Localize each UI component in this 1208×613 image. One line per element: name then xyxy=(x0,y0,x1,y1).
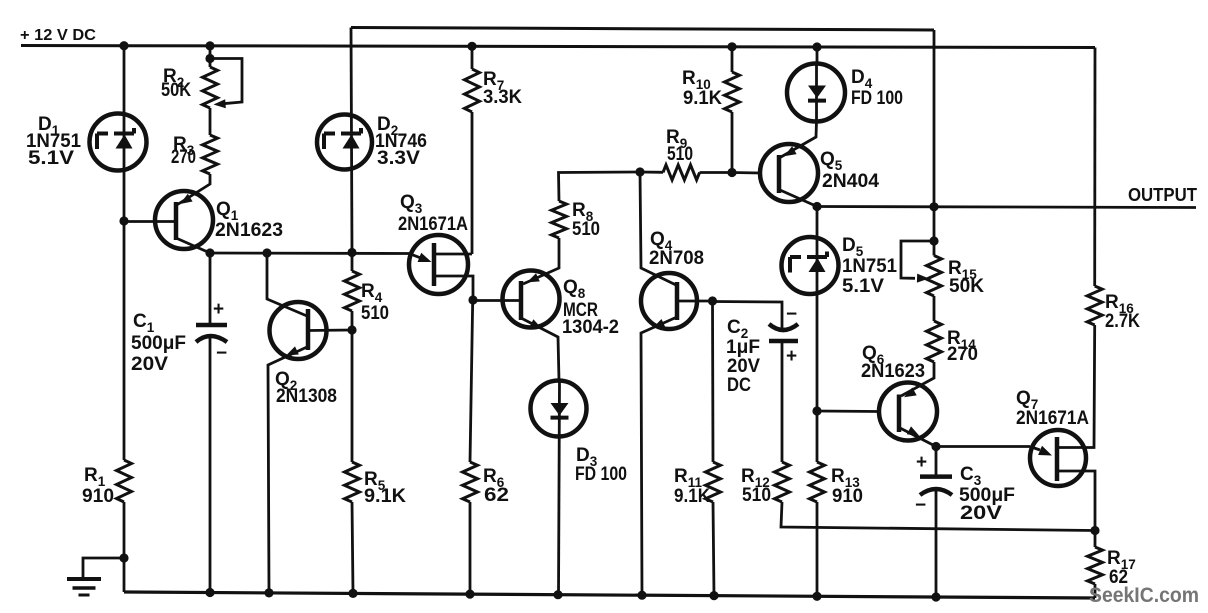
wire R8 to Q8 anode xyxy=(523,238,559,284)
svg-text:62: 62 xyxy=(484,485,509,506)
svg-text:2N1623: 2N1623 xyxy=(861,361,925,382)
svg-text:5.1V: 5.1V xyxy=(842,276,884,297)
label Q5 xyxy=(820,149,879,192)
resistor R14 270 xyxy=(927,321,942,362)
label C3 xyxy=(959,464,1015,524)
resistor R4 510 xyxy=(345,271,360,311)
label R17 xyxy=(1107,548,1136,588)
wire R7 to Q3 B2 xyxy=(471,112,474,254)
wire C1 stem xyxy=(209,253,212,325)
wire D3 through and down xyxy=(559,381,560,595)
wire D5 stem xyxy=(816,207,819,412)
wire top rail drop x934 xyxy=(933,30,936,241)
wire R15-R14 link xyxy=(933,296,936,321)
wire Q5 collector to output node xyxy=(780,190,817,207)
wire Q4 base xyxy=(677,300,713,303)
wire +12 right drop to R16 xyxy=(1093,48,1096,287)
wire Q3 B2 xyxy=(434,253,472,256)
transistor Q4 2N708 xyxy=(641,273,697,329)
resistor R13 910 xyxy=(810,462,825,502)
label Q1 xyxy=(215,199,283,241)
svg-text:2.7K: 2.7K xyxy=(1105,311,1140,332)
wire R5 bottom xyxy=(352,502,353,593)
svg-text:5.1V: 5.1V xyxy=(28,148,74,169)
wire R8 top corner xyxy=(559,172,641,201)
label D4 xyxy=(851,67,903,109)
wire R12 bottom corner xyxy=(781,502,1095,531)
label R15 xyxy=(948,258,984,297)
resistor R15 50K potentiometer xyxy=(927,256,942,297)
capacitor C2 1uF xyxy=(769,304,798,367)
transistor Q5 2N404 xyxy=(760,144,818,202)
svg-text:2N1623: 2N1623 xyxy=(215,220,283,241)
svg-text:+ 12 V DC: + 12 V DC xyxy=(20,27,96,44)
wire C2 to R12 xyxy=(781,342,784,462)
wire Q3 B1 xyxy=(434,276,473,300)
svg-text:3.3K: 3.3K xyxy=(483,87,522,108)
junction R9-R10 xyxy=(727,168,736,177)
pot wiper R15 xyxy=(901,241,934,283)
junction rail-R10 xyxy=(727,42,736,51)
transistor Q1 2N1623 xyxy=(155,191,213,249)
svg-text:9.1K: 9.1K xyxy=(364,486,406,507)
label R5 xyxy=(364,469,406,507)
watermark SeekIC.com xyxy=(1089,584,1199,607)
junction Q4 base node xyxy=(708,296,717,305)
wire Q5 emitter to D4 xyxy=(780,122,817,158)
resistor R11 9.1K xyxy=(706,462,721,502)
label R4 xyxy=(361,281,389,324)
zener diode D5 1N751 xyxy=(782,237,839,294)
label Q7 xyxy=(1016,388,1089,429)
label R9 xyxy=(666,127,693,165)
label R11 xyxy=(674,466,710,507)
junction rail-D4 xyxy=(812,42,821,51)
svg-text:+: + xyxy=(213,299,224,320)
wire Q3 B1 to R6 xyxy=(470,300,473,462)
label R7 xyxy=(483,69,522,108)
junction Q3 B1 gate node xyxy=(468,295,477,304)
svg-text:9.1K: 9.1K xyxy=(674,486,710,507)
zener diode D1 1N751 xyxy=(90,114,147,171)
svg-text:2N1671A: 2N1671A xyxy=(398,214,468,235)
transistor Q2 2N1308 xyxy=(270,302,327,359)
resistor R9 510 xyxy=(663,165,700,180)
wire emitter bus y=253 xyxy=(210,252,409,255)
resistor R10 9.1K xyxy=(725,72,740,112)
wire D4 top stub xyxy=(816,47,819,64)
label R6 xyxy=(483,466,509,506)
junction Q6 emitter-C3 xyxy=(931,442,940,451)
svg-text:20V: 20V xyxy=(131,354,168,375)
label R13 xyxy=(831,466,863,507)
junction Q1 emitter xyxy=(205,248,214,257)
svg-text:OUTPUT: OUTPUT xyxy=(1128,185,1197,205)
svg-text:3.3V: 3.3V xyxy=(377,148,420,169)
junction rail-D1 xyxy=(119,41,128,50)
junction gnd-Q2e xyxy=(264,588,273,597)
wire R10 top stub xyxy=(731,47,734,72)
resistor R6 62 xyxy=(463,462,478,502)
wire R9 right stub xyxy=(700,171,732,174)
unijunction transistor Q7 2N1671A xyxy=(1030,430,1086,486)
wire C3 stem xyxy=(935,447,938,477)
ground xyxy=(67,579,101,595)
wire Q4 collector drop xyxy=(640,172,676,285)
resistor R17 62 xyxy=(1088,547,1103,584)
wire Q7 B1 to R17 xyxy=(1057,471,1095,531)
resistor R12 510 xyxy=(775,462,790,502)
wire R14 to Q6 collector xyxy=(901,362,934,396)
junction R9 left xyxy=(635,167,644,176)
svg-text:910: 910 xyxy=(82,486,114,507)
wire Q2 emitter drop xyxy=(268,347,307,593)
wire R2 top stub xyxy=(209,46,212,67)
zener diode D2 1N746 xyxy=(317,115,372,170)
svg-text:9.1K: 9.1K xyxy=(683,88,722,109)
junction R15 pot top xyxy=(929,236,938,245)
wire R11 drop xyxy=(711,301,714,462)
wire R7 top stub xyxy=(471,46,474,69)
svg-text:1304-2: 1304-2 xyxy=(562,317,619,338)
label R16 xyxy=(1105,292,1140,332)
junction rail-R7 xyxy=(467,42,476,51)
junction gnd-R6 xyxy=(465,590,474,599)
junction R17 top xyxy=(1090,526,1099,535)
wire R3 to Q1 collector xyxy=(178,174,211,205)
wire Q5 base xyxy=(732,171,760,174)
junction gnd-Q4e xyxy=(637,591,646,600)
junction D2-R4 xyxy=(347,248,356,257)
diode D4 FD100 xyxy=(787,64,845,122)
label R3 xyxy=(171,134,196,168)
svg-text:270: 270 xyxy=(171,147,196,168)
svg-text:270: 270 xyxy=(947,344,978,365)
unijunction transistor Q3 2N1671A xyxy=(409,235,468,294)
wire R11 bottom xyxy=(713,502,714,596)
wire R6 bottom xyxy=(469,502,472,594)
label +12 V DC xyxy=(20,27,96,44)
pot wiper R2 xyxy=(210,59,242,109)
svg-text:2N404: 2N404 xyxy=(822,171,879,192)
svg-text:50K: 50K xyxy=(949,276,984,297)
wire R15 top stub xyxy=(933,241,936,256)
wire upper feedback rail xyxy=(351,28,934,31)
svg-text:DC: DC xyxy=(727,375,751,396)
wire Q1 emitter to node xyxy=(176,238,210,253)
svg-text:2N1308: 2N1308 xyxy=(276,386,337,407)
svg-text:+: + xyxy=(916,452,927,473)
svg-text:510: 510 xyxy=(742,485,771,506)
svg-text:1N751: 1N751 xyxy=(842,256,897,277)
wire Q6 base xyxy=(817,410,879,413)
transistor Q6 2N1623 xyxy=(879,383,937,441)
label R12 xyxy=(741,466,771,506)
label Q8 xyxy=(562,277,619,338)
wire R4-R5 link xyxy=(351,311,354,330)
capacitor C3 500uF xyxy=(915,452,952,516)
junction D1-Q1 base xyxy=(119,216,128,225)
svg-text:50K: 50K xyxy=(161,80,191,101)
wire ground rail left riser xyxy=(123,558,126,592)
svg-text:510: 510 xyxy=(572,219,600,240)
wire Q7 emitter link xyxy=(936,445,1030,448)
label D5 xyxy=(842,235,897,297)
wire C2 top link xyxy=(713,302,783,329)
wire left branch from rail to D1/R1 xyxy=(123,46,126,460)
svg-text:2N708: 2N708 xyxy=(649,248,704,269)
label Q4 xyxy=(649,229,704,269)
label C2 xyxy=(726,317,760,396)
junction R2 pot top xyxy=(205,54,214,63)
wire R13 bottom xyxy=(816,502,819,596)
resistor R1 910 xyxy=(117,460,132,502)
junction gnd-R13 xyxy=(812,592,821,601)
svg-text:−: − xyxy=(216,343,227,364)
wire D2 drop from upper rail xyxy=(351,28,352,253)
node ground rail xyxy=(124,592,1095,598)
junction gnd-R11 xyxy=(709,591,718,600)
junction gnd-R5 xyxy=(348,589,357,598)
wire gate to Q8 xyxy=(473,299,521,302)
svg-text:510: 510 xyxy=(667,144,693,165)
svg-text:SeekIC.com: SeekIC.com xyxy=(1089,584,1199,607)
wire R17 top stub xyxy=(1094,531,1097,548)
label C1 xyxy=(131,311,186,375)
label Q2 xyxy=(275,369,337,407)
resistor R2 50K potentiometer xyxy=(203,67,218,108)
wire Q1 base xyxy=(124,220,176,223)
wire C1 bottom stem xyxy=(209,338,212,593)
wire R10 bottom xyxy=(731,112,734,173)
label R14 xyxy=(947,328,978,365)
label D3 xyxy=(575,445,627,485)
svg-text:510: 510 xyxy=(361,303,389,324)
label Q3 xyxy=(398,192,468,235)
label R2 xyxy=(161,66,191,101)
wire R9 left stub xyxy=(640,171,663,174)
svg-text:FD 100: FD 100 xyxy=(575,464,627,485)
resistor R5 9.1K xyxy=(345,462,360,502)
svg-text:2N1671A: 2N1671A xyxy=(1016,408,1089,429)
SCR Q8 MCR1304-2 xyxy=(503,271,560,329)
label D1 xyxy=(26,114,81,169)
svg-text:20V: 20V xyxy=(727,356,760,377)
junction gnd-C3 xyxy=(931,592,940,601)
junction Q2 collector tap xyxy=(262,248,271,257)
svg-text:910: 910 xyxy=(832,486,863,507)
wire Q2 base link xyxy=(308,329,352,332)
junction gnd-C1 xyxy=(205,588,214,597)
wire R4 top stub xyxy=(351,253,354,272)
svg-text:500μF: 500μF xyxy=(131,333,186,354)
junction output-R15 xyxy=(929,202,938,211)
wire C3 bottom stem xyxy=(935,490,938,597)
wire R16 to Q7 B2 xyxy=(1057,325,1095,448)
junction D5-Q6 base xyxy=(812,406,821,415)
wire ground stub xyxy=(83,558,124,579)
svg-text:+: + xyxy=(786,346,797,367)
junction ground branch xyxy=(119,553,128,562)
label D2 xyxy=(375,114,427,169)
label R1 xyxy=(82,465,114,507)
node +12V supply rail xyxy=(21,46,1095,48)
junction gnd-D3 xyxy=(553,590,562,599)
wire R13 drop xyxy=(816,411,819,462)
svg-text:−: − xyxy=(915,495,926,516)
svg-text:−: − xyxy=(786,304,797,325)
junction rail-R2 xyxy=(205,41,214,50)
svg-text:1μF: 1μF xyxy=(726,337,760,358)
wire R5 link xyxy=(351,330,354,462)
diode D3 FD100 xyxy=(531,381,587,437)
wire R2-R3 link xyxy=(209,108,212,135)
resistor R8 510 xyxy=(552,201,567,238)
svg-text:20V: 20V xyxy=(960,503,1002,524)
wire Q2 collector drop xyxy=(267,253,307,316)
junction R4-Q2 base xyxy=(347,325,356,334)
junction output node xyxy=(812,202,821,211)
capacitor C1 500uF xyxy=(196,299,227,364)
wire Q4 emitter drop xyxy=(641,317,677,595)
resistor R3 270 xyxy=(203,135,218,174)
wire Q6 emitter to node xyxy=(900,428,936,447)
svg-text:FD 100: FD 100 xyxy=(851,88,903,109)
wire R1 bottom xyxy=(123,502,126,558)
resistor R16 2.7K xyxy=(1087,286,1102,325)
label R10 xyxy=(682,68,722,109)
label R8 xyxy=(572,200,600,240)
wire R17 bottom xyxy=(1094,584,1097,598)
label Q6 xyxy=(861,343,925,382)
label OUTPUT xyxy=(1128,185,1197,205)
wire D4 through xyxy=(815,64,818,122)
wire Q8 cathode to D3 xyxy=(521,318,559,381)
node OUTPUT line xyxy=(817,207,1196,208)
resistor R7 3.3K xyxy=(465,69,480,112)
